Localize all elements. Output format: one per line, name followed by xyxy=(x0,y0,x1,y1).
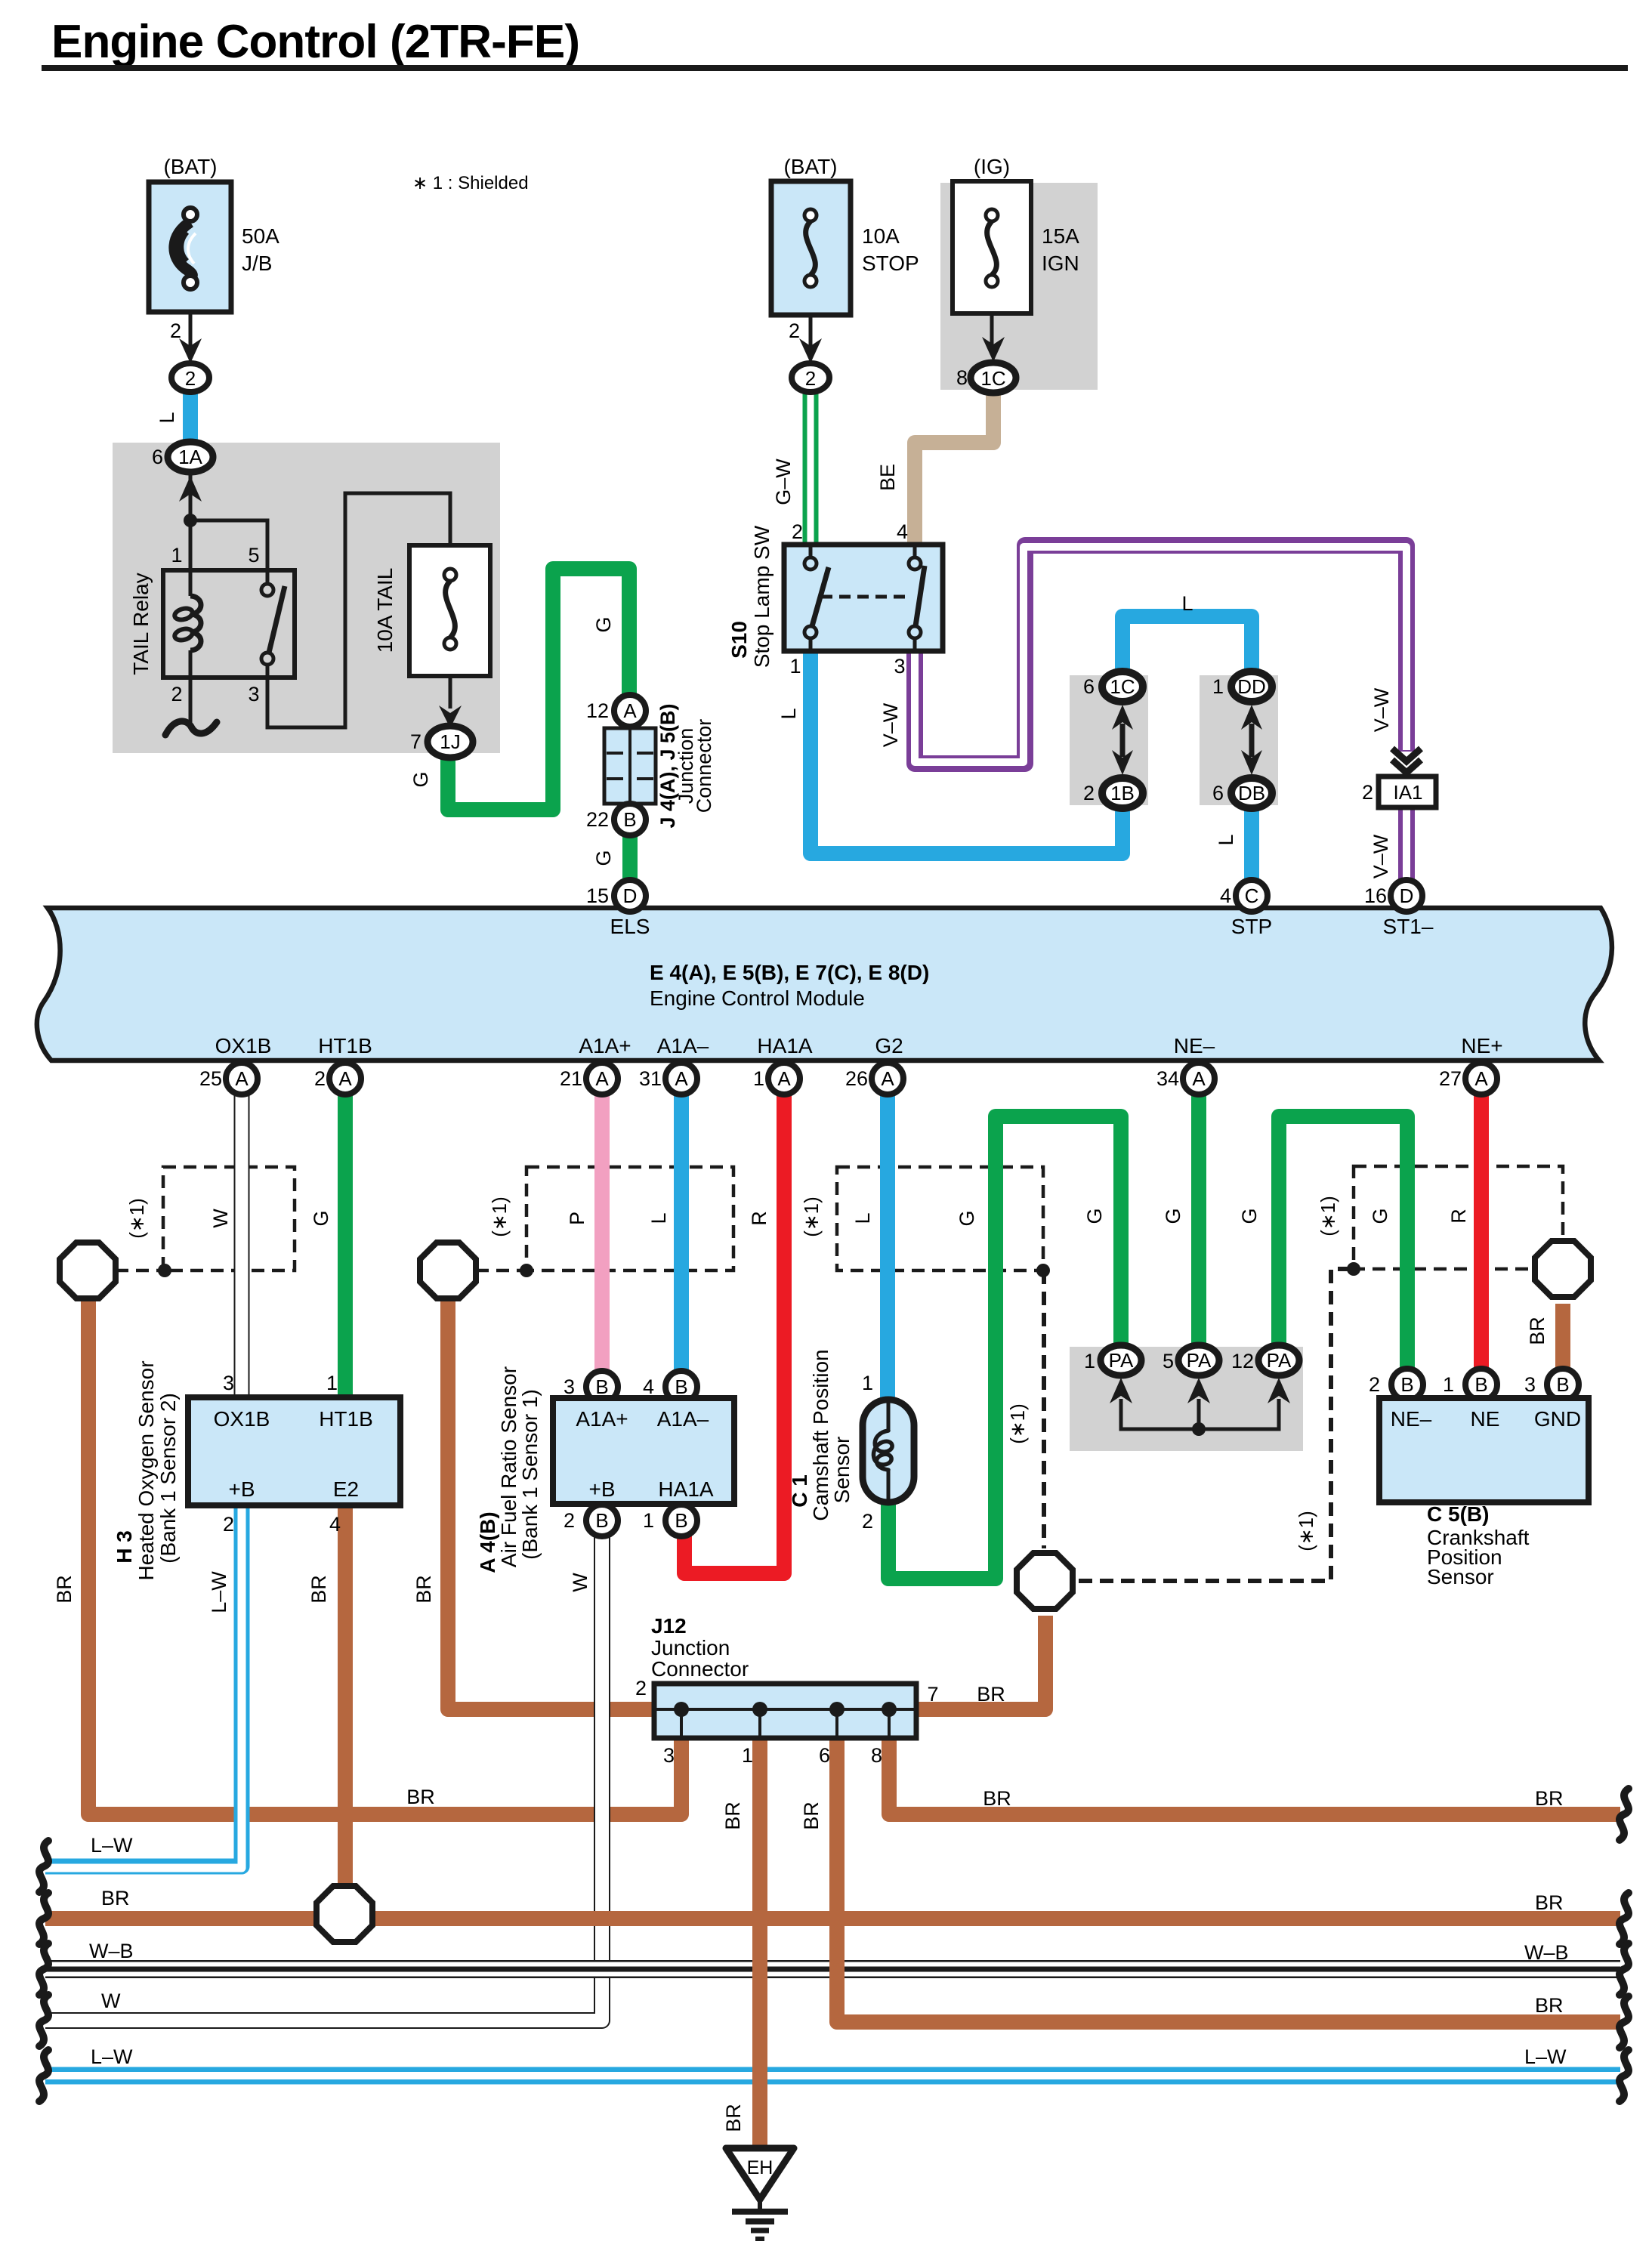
break squiggle right BR low xyxy=(1620,1996,1629,2048)
oval connector 2 xyxy=(171,363,209,392)
wire W white OX1B ECM to H3 pin3 xyxy=(234,1094,250,1399)
wire L-W striped bottom long horizontal xyxy=(45,2067,1620,2085)
wire black 1A to relay coil xyxy=(189,474,193,571)
wire G green PA12 to crank NE- xyxy=(1279,1116,1407,1369)
arrow up into 1A xyxy=(179,476,202,502)
shield dashed box L G (C1) xyxy=(837,1167,1043,1270)
ECM band E4 E5 E7 E8 xyxy=(37,908,1612,1060)
wire BR brown H3 E2 to octagon4 xyxy=(338,1503,353,1888)
svg-text:G: G xyxy=(1083,1208,1106,1224)
oval connector DB xyxy=(1231,778,1272,808)
svg-text:G: G xyxy=(592,616,615,632)
svg-text:1: 1 xyxy=(171,544,182,566)
J12 junction dots xyxy=(674,1702,689,1717)
svg-text:BR: BR xyxy=(406,1786,435,1808)
svg-text:25: 25 xyxy=(199,1067,222,1090)
svg-text:D: D xyxy=(1400,884,1414,907)
svg-text:OX1B: OX1B xyxy=(214,1407,270,1431)
fuse 15A IGN element xyxy=(986,209,998,221)
svg-text:5: 5 xyxy=(248,544,259,566)
svg-text:TAIL Relay: TAIL Relay xyxy=(129,573,153,675)
svg-text:1: 1 xyxy=(862,1372,873,1394)
svg-text:G: G xyxy=(310,1210,332,1226)
svg-text:1: 1 xyxy=(789,655,801,678)
wire BR brown crank GND octagon xyxy=(1555,1304,1570,1369)
relay TAIL box xyxy=(163,570,295,678)
svg-text:BR: BR xyxy=(53,1575,76,1604)
svg-text:R: R xyxy=(1447,1209,1470,1224)
fuse 10A STOP box xyxy=(771,181,851,315)
svg-text:L–W: L–W xyxy=(1524,2045,1567,2068)
svg-text:BR: BR xyxy=(1526,1317,1549,1345)
svg-text:2: 2 xyxy=(1083,782,1095,804)
PA connector gray panel xyxy=(1070,1347,1303,1451)
svg-text:Heated Oxygen Sensor: Heated Oxygen Sensor xyxy=(134,1360,158,1580)
svg-text:1C: 1C xyxy=(1110,675,1135,698)
svg-text:1C: 1C xyxy=(980,367,1005,390)
svg-text:W: W xyxy=(209,1209,232,1228)
svg-text:B: B xyxy=(1400,1373,1413,1396)
svg-text:7: 7 xyxy=(410,730,421,753)
svg-text:15A: 15A xyxy=(1042,224,1079,248)
PA arrows up xyxy=(1110,1378,1132,1403)
svg-text:8: 8 xyxy=(871,1744,882,1767)
svg-text:1: 1 xyxy=(742,1744,753,1767)
svg-text:6: 6 xyxy=(152,446,163,468)
wire BR brown long horizontal through octagon4 xyxy=(45,1911,1620,1926)
svg-text:A: A xyxy=(1192,1067,1206,1090)
svg-text:A: A xyxy=(338,1067,352,1090)
break squiggle left L-W xyxy=(39,1841,48,1892)
svg-text:J12: J12 xyxy=(651,1614,687,1638)
svg-text:(Bank 1 Sensor 2): (Bank 1 Sensor 2) xyxy=(156,1393,180,1564)
svg-text:(∗1): (∗1) xyxy=(488,1196,511,1237)
wire G green NE- ECM to PA5 xyxy=(1191,1094,1206,1346)
svg-text:10A TAIL: 10A TAIL xyxy=(373,568,397,653)
oval connector PA1 xyxy=(1101,1345,1141,1375)
svg-text:BR: BR xyxy=(983,1787,1011,1810)
svg-text:STP: STP xyxy=(1231,915,1272,938)
IGN gray panel xyxy=(940,183,1098,390)
svg-text:10A: 10A xyxy=(862,224,900,248)
svg-text:HT1B: HT1B xyxy=(318,1034,372,1057)
svg-text:ST1–: ST1– xyxy=(1383,915,1434,938)
svg-text:G–W: G–W xyxy=(772,458,795,505)
pin circle D ST1 xyxy=(1391,880,1422,912)
svg-text:A: A xyxy=(623,699,637,722)
svg-text:2: 2 xyxy=(789,320,800,342)
svg-text:W: W xyxy=(101,1990,121,2012)
svg-text:(BAT): (BAT) xyxy=(163,155,217,178)
pin circle B HA1A A4 xyxy=(665,1505,697,1536)
svg-text:S10: S10 xyxy=(727,621,751,659)
svg-text:W: W xyxy=(569,1573,591,1592)
pin circle B +B A4 xyxy=(586,1505,618,1536)
svg-text:2: 2 xyxy=(805,367,816,390)
wire W white A4 +B to left break xyxy=(45,1536,602,2021)
connector 1C/1B gray panel xyxy=(1070,675,1148,805)
svg-text:BR: BR xyxy=(1535,1787,1564,1810)
pin circle B junction bottom xyxy=(614,804,646,835)
svg-text:B: B xyxy=(1556,1373,1569,1396)
wire V-W striped IA1 to ECM D xyxy=(1398,807,1415,882)
svg-text:2: 2 xyxy=(564,1509,575,1532)
svg-text:BR: BR xyxy=(722,2104,745,2132)
svg-text:A1A–: A1A– xyxy=(657,1034,709,1057)
relay gray panel xyxy=(113,443,500,753)
wire black relay pin2 stub xyxy=(189,678,193,725)
svg-text:G: G xyxy=(1369,1208,1391,1224)
svg-text:DD: DD xyxy=(1237,675,1266,698)
wire P pink A1A+ ECM to A4 pin3 xyxy=(594,1094,610,1372)
svg-text:PA: PA xyxy=(1187,1349,1212,1372)
shield junction dot box3 xyxy=(1036,1264,1050,1277)
svg-text:NE–: NE– xyxy=(1391,1407,1432,1431)
wire G green junction B to ECM D xyxy=(622,834,638,882)
svg-text:NE–: NE– xyxy=(1174,1034,1215,1057)
oval connector DD xyxy=(1231,671,1272,702)
svg-text:C: C xyxy=(1245,884,1259,907)
svg-text:1A: 1A xyxy=(178,446,202,468)
svg-text:22: 22 xyxy=(586,808,609,831)
oval connector 2 stop xyxy=(792,363,829,392)
arrow down ign xyxy=(982,337,1005,362)
svg-text:3: 3 xyxy=(223,1372,234,1394)
svg-text:26: 26 xyxy=(845,1067,868,1090)
wire L blue 1C to DD xyxy=(1122,616,1252,672)
SECTION-STOP xyxy=(727,155,1436,878)
svg-text:1: 1 xyxy=(1084,1350,1095,1372)
svg-text:(∗1): (∗1) xyxy=(1295,1511,1317,1551)
svg-text:B: B xyxy=(675,1375,687,1398)
break squiggle right BR top xyxy=(1620,1789,1629,1840)
svg-text:BR: BR xyxy=(800,1801,823,1830)
svg-text:A: A xyxy=(235,1067,249,1090)
fuse 10A TAIL element xyxy=(444,569,456,581)
SECTION-WIRES xyxy=(45,390,1620,2148)
svg-text:NE+: NE+ xyxy=(1461,1034,1502,1057)
svg-text:1: 1 xyxy=(753,1067,764,1090)
svg-text:12: 12 xyxy=(1231,1350,1254,1372)
break squiggle right L-W xyxy=(1620,2050,1629,2101)
wire L blue G2 ECM to camshaft pin1 xyxy=(880,1094,895,1402)
svg-text:(BAT): (BAT) xyxy=(783,155,837,178)
svg-text:BR: BR xyxy=(1535,1994,1564,2017)
wire black relay pin3 to tail fuse xyxy=(267,493,450,727)
wire L blue fuse50A to 1A xyxy=(183,391,198,444)
wire G green camshaft pin2 to PA1 xyxy=(888,1116,1121,1579)
svg-text:2: 2 xyxy=(171,683,182,705)
svg-text:BR: BR xyxy=(1535,1891,1564,1914)
shield junction dot box4 xyxy=(1347,1262,1360,1276)
svg-text:Engine Control Module: Engine Control Module xyxy=(650,986,865,1010)
svg-text:BR: BR xyxy=(101,1887,130,1909)
oval connector 1C ign xyxy=(971,363,1016,393)
svg-text:2: 2 xyxy=(792,520,803,543)
wire BE tan IGN 1C to switch pin4 xyxy=(915,393,993,547)
svg-text:DB: DB xyxy=(1238,782,1265,804)
wire G green 1J to junction A xyxy=(448,569,629,810)
svg-text:Engine Control (2TR-FE): Engine Control (2TR-FE) xyxy=(51,16,580,68)
svg-text:+B: +B xyxy=(588,1477,615,1501)
svg-text:Connector: Connector xyxy=(651,1657,749,1681)
oval connector 1A xyxy=(168,442,213,472)
svg-text:STOP: STOP xyxy=(862,252,919,275)
shield dashed box G R (C5) xyxy=(1354,1166,1563,1269)
break squiggle right W-B xyxy=(1620,1943,1629,1995)
svg-text:3: 3 xyxy=(248,683,259,705)
shield dashed box W G (H3) xyxy=(163,1167,295,1270)
SECTION-LEFT xyxy=(129,155,715,866)
svg-text:A: A xyxy=(777,1067,791,1090)
break squiggle left W-B xyxy=(39,1943,48,1995)
shield octagon3 xyxy=(1017,1553,1073,1609)
svg-text:6: 6 xyxy=(1212,782,1224,804)
double arrow 1C-1B xyxy=(1120,724,1126,757)
svg-text:2: 2 xyxy=(1362,781,1373,804)
relay contact xyxy=(266,570,270,583)
svg-text:ELS: ELS xyxy=(610,915,650,938)
wire BR brown octagon3 to J12 pin7 xyxy=(915,1616,1045,1709)
squiggle end relay pin2 xyxy=(165,721,217,735)
svg-text:HT1B: HT1B xyxy=(319,1407,373,1431)
svg-text:H 3: H 3 xyxy=(113,1530,136,1564)
svg-text:HA1A: HA1A xyxy=(757,1034,812,1057)
svg-text:2: 2 xyxy=(1369,1373,1380,1396)
svg-text:31: 31 xyxy=(639,1067,662,1090)
svg-text:A1A–: A1A– xyxy=(657,1407,709,1431)
svg-text:B: B xyxy=(623,808,636,831)
svg-text:A: A xyxy=(595,1067,609,1090)
svg-text:BR: BR xyxy=(977,1683,1005,1706)
svg-text:21: 21 xyxy=(560,1067,582,1090)
wire G green HT1B ECM to H3 pin1 xyxy=(338,1094,353,1399)
shield junction dot box2 xyxy=(520,1264,533,1277)
svg-text:6: 6 xyxy=(1083,675,1095,698)
svg-text:4: 4 xyxy=(643,1375,654,1398)
pin circle D ELS xyxy=(614,880,646,912)
break squiggle left L-W bottom xyxy=(39,2050,48,2101)
switch dashed link xyxy=(821,595,909,599)
svg-text:(IG): (IG) xyxy=(974,155,1010,178)
svg-text:4: 4 xyxy=(329,1513,341,1536)
junction connector J12 box xyxy=(654,1684,916,1738)
relay coil xyxy=(189,570,193,596)
svg-text:A: A xyxy=(675,1067,688,1090)
svg-text:OX1B: OX1B xyxy=(215,1034,272,1057)
svg-text:L–W: L–W xyxy=(91,2045,133,2068)
shield octagon2 xyxy=(420,1243,476,1298)
svg-text:Connector: Connector xyxy=(693,719,715,813)
svg-text:PA: PA xyxy=(1109,1349,1134,1372)
wire BR brown J12 pin1 to EH ground xyxy=(752,1737,767,2148)
arrow down stop xyxy=(799,338,822,363)
wire BR brown octagon1 to J12 pin3 xyxy=(88,1298,681,1814)
pin circle B A1A+ xyxy=(586,1371,618,1403)
svg-text:A1A+: A1A+ xyxy=(579,1034,631,1057)
svg-text:BR: BR xyxy=(412,1575,435,1604)
svg-text:NE: NE xyxy=(1471,1407,1500,1431)
svg-text:IGN: IGN xyxy=(1042,252,1079,275)
arrow down to oval 2 xyxy=(179,338,202,363)
svg-text:1: 1 xyxy=(1443,1373,1454,1396)
switch contacts xyxy=(811,547,915,650)
svg-text:L: L xyxy=(777,708,800,719)
svg-text:G2: G2 xyxy=(875,1034,903,1057)
chevron arrows into IA1 xyxy=(1392,749,1421,761)
svg-text:BE: BE xyxy=(876,464,899,491)
svg-text:E2: E2 xyxy=(333,1477,359,1501)
arrow down to 1J xyxy=(439,705,462,728)
svg-text:G: G xyxy=(409,771,432,787)
svg-text:G: G xyxy=(592,850,615,866)
PA link lines xyxy=(1121,1399,1279,1429)
dashed link octagon3 to box4 xyxy=(1079,1269,1352,1581)
svg-text:3: 3 xyxy=(564,1375,575,1398)
sensor C5 crank box xyxy=(1379,1398,1589,1502)
svg-text:A 4(B): A 4(B) xyxy=(476,1511,499,1573)
svg-text:V–W: V–W xyxy=(1370,687,1393,732)
svg-text:V–W: V–W xyxy=(879,702,902,747)
sensor A4 box xyxy=(553,1398,734,1504)
wire black branch to pin5 xyxy=(190,520,267,571)
svg-text:J/B: J/B xyxy=(242,252,272,275)
fuse 10A TAIL box xyxy=(409,545,490,676)
svg-text:HA1A: HA1A xyxy=(658,1477,713,1501)
svg-text:R: R xyxy=(748,1211,770,1226)
svg-text:Sensor: Sensor xyxy=(1427,1565,1494,1588)
svg-text:5: 5 xyxy=(1163,1350,1174,1372)
wire L-W striped H3 +B to left break xyxy=(45,1503,242,1866)
shield dashed box P L (A4) xyxy=(526,1167,733,1270)
svg-text:1J: 1J xyxy=(440,730,460,753)
dashed link box3 down to octagon3 xyxy=(1042,1270,1046,1548)
wire W-B striped long horizontal xyxy=(45,1960,1620,1978)
SECTION-SENSORS xyxy=(53,1196,1591,1613)
svg-text:G: G xyxy=(1162,1208,1184,1224)
oval connector PA12 xyxy=(1258,1345,1299,1375)
pin circle B A1A- xyxy=(665,1371,697,1403)
shield octagon4 on BR line xyxy=(317,1886,372,1942)
sensor C1 camshaft stadium xyxy=(863,1400,914,1502)
svg-text:W–B: W–B xyxy=(89,1940,134,1962)
svg-text:2: 2 xyxy=(185,367,196,390)
svg-text:D: D xyxy=(623,884,638,907)
wire BR brown J12 pin8 to right break xyxy=(889,1737,1620,1814)
wire black fuse to oval 2 xyxy=(189,312,193,355)
shield junction dot box1 xyxy=(158,1264,171,1277)
svg-text:L: L xyxy=(851,1212,874,1224)
svg-text:A1A+: A1A+ xyxy=(576,1407,628,1431)
svg-text:C 5(B): C 5(B) xyxy=(1427,1502,1489,1526)
wire black stop fuse to oval xyxy=(809,315,813,355)
svg-text:A: A xyxy=(881,1067,894,1090)
oval connector 1C xyxy=(1102,671,1143,702)
wire L blue A1A- ECM to A4 pin4 xyxy=(674,1094,689,1372)
sensor H3 box xyxy=(188,1397,400,1505)
svg-text:BR: BR xyxy=(721,1801,744,1830)
fuse 50A J/B element xyxy=(174,222,192,278)
svg-text:Camshaft Position: Camshaft Position xyxy=(809,1349,832,1520)
svg-text:B: B xyxy=(675,1509,687,1532)
svg-text:2: 2 xyxy=(314,1067,326,1090)
junction dot xyxy=(184,514,197,527)
svg-text:C 1: C 1 xyxy=(788,1474,811,1508)
svg-text:L–W: L–W xyxy=(208,1571,230,1613)
svg-text:G: G xyxy=(956,1210,978,1226)
wire V-W striped switch pin3 to IA1 xyxy=(915,545,1407,764)
fuse 50A J/B box xyxy=(149,182,231,312)
svg-text:(∗1): (∗1) xyxy=(1317,1196,1339,1236)
svg-text:G: G xyxy=(1238,1208,1261,1224)
svg-text:L: L xyxy=(1215,834,1237,845)
svg-text:12: 12 xyxy=(586,699,609,722)
ground EH xyxy=(726,2148,794,2200)
svg-text:L: L xyxy=(156,412,178,423)
pin circle A junction top xyxy=(614,695,646,727)
wire black tail fuse to 1J xyxy=(449,676,452,709)
svg-text:Stop Lamp SW: Stop Lamp SW xyxy=(750,525,774,668)
svg-text:2: 2 xyxy=(862,1510,873,1533)
wire BR brown octagon2 to J12 pin2 xyxy=(448,1298,656,1709)
svg-text:A: A xyxy=(1474,1067,1488,1090)
svg-text:1: 1 xyxy=(326,1372,338,1394)
svg-text:(∗1): (∗1) xyxy=(125,1198,148,1239)
svg-text:1: 1 xyxy=(643,1509,654,1532)
switch S10 box xyxy=(784,545,943,651)
connector DD/DB gray panel xyxy=(1200,675,1278,805)
double arrow DD-DB xyxy=(1249,724,1255,757)
svg-text:E 4(A), E 5(B), E 7(C), E 8(D): E 4(A), E 5(B), E 7(C), E 8(D) xyxy=(650,961,929,984)
wire black ign fuse to 1C xyxy=(992,313,993,355)
svg-text:7: 7 xyxy=(927,1683,938,1706)
wire BR brown J12 pin6 to right break xyxy=(837,1737,1620,2022)
SECTION-BOTTOM xyxy=(39,1614,1629,2239)
svg-text:L–W: L–W xyxy=(91,1834,133,1857)
svg-text:B: B xyxy=(595,1375,608,1398)
pin circle B NE crank xyxy=(1465,1369,1497,1400)
svg-text:(∗1): (∗1) xyxy=(800,1196,823,1237)
svg-text:Junction: Junction xyxy=(651,1636,730,1659)
svg-text:Sensor: Sensor xyxy=(830,1437,854,1504)
wire R red NE+ ECM to crank NE xyxy=(1474,1094,1489,1369)
svg-text:2: 2 xyxy=(223,1513,234,1536)
svg-text:IA1: IA1 xyxy=(1393,781,1422,804)
svg-text:34: 34 xyxy=(1156,1067,1179,1090)
svg-text:15: 15 xyxy=(586,884,609,907)
wire L blue switch pin1 to 1B xyxy=(811,650,1122,854)
fuse 15A IGN box xyxy=(953,181,1031,313)
SECTION-ECM xyxy=(37,880,1612,1094)
oval connector 1J xyxy=(428,726,473,758)
break squiggle left W xyxy=(39,1995,48,2046)
svg-text:8: 8 xyxy=(956,366,968,389)
svg-text:4: 4 xyxy=(1220,884,1231,907)
svg-text:3: 3 xyxy=(663,1744,675,1767)
svg-text:EH: EH xyxy=(747,2157,774,2178)
svg-text:1B: 1B xyxy=(1110,782,1135,804)
shield octagon right xyxy=(1535,1241,1591,1297)
break squiggle right BR mid xyxy=(1620,1893,1629,1944)
oval connector 1B xyxy=(1102,778,1143,808)
svg-text:BR: BR xyxy=(307,1575,330,1604)
svg-text:2: 2 xyxy=(635,1677,647,1699)
wire L blue DB to ECM C xyxy=(1244,808,1259,882)
svg-text:(∗1): (∗1) xyxy=(1006,1403,1029,1444)
svg-text:16: 16 xyxy=(1364,884,1387,907)
svg-text:B: B xyxy=(1474,1373,1487,1396)
svg-text:1: 1 xyxy=(1212,675,1224,698)
